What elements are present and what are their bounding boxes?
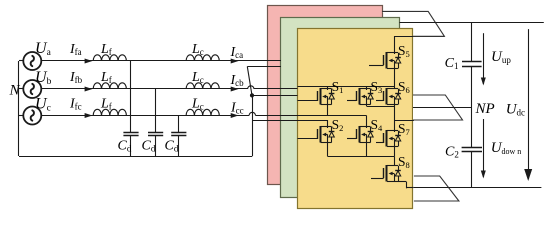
svg-text:NP: NP — [475, 101, 495, 117]
svg-text:N: N — [9, 83, 21, 99]
